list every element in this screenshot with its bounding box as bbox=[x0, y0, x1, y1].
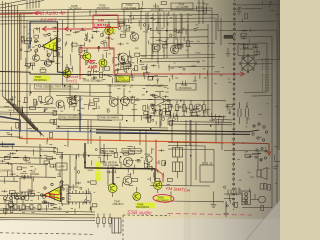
electrolytic capacitor C2 bbox=[173, 162, 183, 178]
capacitor CR2 bbox=[246, 102, 249, 124]
meter M1 bbox=[45, 96, 53, 104]
wire left bus v4 bbox=[11, 4, 13, 102]
component row rects bbox=[6, 205, 41, 210]
wire left bus v7 bbox=[20, 13, 22, 60]
wire topleft diag 2 bbox=[0, 1, 44, 9]
transistor TR27 highlight bbox=[63, 69, 72, 78]
IC U5 bbox=[20, 175, 32, 195]
transistor TR45 bbox=[123, 157, 132, 166]
wire tr vert 6 bbox=[180, 13, 182, 50]
wire left diag 1 bbox=[3, 96, 35, 129]
wire left bus v3 bbox=[8, 3, 10, 100]
red arrowhead orange end bbox=[267, 152, 271, 156]
TR28 symbol bbox=[83, 48, 91, 65]
red pen arrow wire to U1 bbox=[42, 28, 93, 30]
wire top stub v2 bbox=[29, 0, 31, 9]
wire top stub v4 bbox=[35, 0, 37, 8]
wire h95 bbox=[56, 96, 112, 97]
ground G3 bbox=[224, 210, 229, 217]
transistor TRd bbox=[56, 100, 64, 108]
component cluster: U1 surroundings bbox=[20, 26, 63, 72]
transistor TR47 highlight bbox=[108, 184, 117, 193]
TR47 symbol bbox=[108, 184, 117, 197]
wire left diag 2 bbox=[6, 98, 37, 131]
transistor TRf bbox=[45, 60, 52, 67]
meter M2 bottom-right bbox=[259, 196, 266, 203]
wire left strong v27 bbox=[26, 20, 28, 144]
red pen top-left segment bbox=[0, 13, 33, 16]
transistor TRg bbox=[152, 44, 160, 52]
resistor column bottom bbox=[97, 214, 111, 228]
dashed board corner bbox=[123, 215, 170, 240]
wire right loop 4 bbox=[252, 95, 272, 97]
wire h177 bbox=[0, 176, 56, 179]
bottom outline wire bbox=[171, 192, 224, 202]
wire h55 right bbox=[140, 54, 215, 57]
red pen drop to FM switch bbox=[156, 140, 163, 182]
IC U4 with pins bbox=[67, 191, 91, 205]
wires bottom-right bbox=[224, 194, 259, 210]
wire top rail 5 bbox=[0, 21, 280, 24]
wire h31 mid right bbox=[150, 29, 208, 32]
bottom chain dashed line bbox=[0, 233, 95, 235]
wire h123 bbox=[0, 122, 56, 123]
board edge chain line bbox=[234, 0, 235, 211]
transistor TRe bbox=[33, 55, 40, 62]
navy pen box around U1 bbox=[30, 22, 66, 73]
component cluster: limiter circuit bbox=[65, 28, 111, 52]
TR48 symbol bbox=[154, 181, 162, 193]
wire h112 bbox=[0, 112, 56, 113]
wire h62 right bbox=[140, 60, 200, 63]
transistor TR31 bbox=[118, 53, 128, 63]
wire switch bundle b bbox=[96, 133, 250, 134]
vertical label smudges right bbox=[263, 58, 269, 92]
wire h38 mid right bbox=[150, 36, 208, 39]
wire topleft diag 1 bbox=[0, 0, 26, 5]
wire left bus v2 bbox=[5, 2, 7, 98]
transistor TRa bbox=[109, 98, 118, 107]
wire tr vert 1 bbox=[145, 13, 147, 58]
junction dot bbox=[84, 162, 86, 164]
wire right drop B bbox=[208, 24, 224, 117]
component row bottom-left rails bbox=[0, 196, 62, 210]
box TF552 bbox=[200, 162, 214, 182]
label box TR38 bbox=[98, 115, 123, 120]
transistor TRh bbox=[170, 45, 178, 53]
rotary switch S1 bbox=[250, 123, 268, 141]
label box TR36 row bbox=[35, 84, 79, 89]
page crease line 2 bbox=[0, 219, 95, 222]
component cluster: left band fill bbox=[2, 118, 56, 147]
wire right v196 bbox=[195, 122, 197, 180]
transistor TR29 highlight bbox=[99, 59, 108, 68]
TR49 symbol bbox=[133, 187, 141, 200]
red pen left vertical bbox=[19, 15, 21, 139]
label box TR31b bbox=[115, 76, 130, 82]
wire h147 bbox=[0, 146, 56, 149]
bottom blank paper strip bbox=[0, 219, 280, 240]
TR27 symbol bbox=[63, 64, 71, 82]
top-right photo shadow bbox=[100, 0, 280, 200]
transistor TRi bbox=[146, 156, 152, 170]
U2 pins bbox=[40, 183, 64, 205]
wire left diag 4 bbox=[12, 102, 41, 134]
wire h67 right bbox=[168, 65, 215, 68]
transistor TR44 bbox=[194, 104, 202, 112]
transistor TR30 highlight bbox=[105, 26, 114, 35]
label box TR41 bbox=[101, 148, 117, 153]
metal-can IC U3 bbox=[239, 54, 257, 73]
wire mid h76 bbox=[113, 76, 168, 77]
wire tr vert 4 bbox=[166, 13, 168, 58]
smudge highlight bbox=[112, 26, 116, 33]
orange pen long horizontal bbox=[20, 139, 233, 143]
wire corner r1 bbox=[168, 146, 205, 165]
component cluster: bottom mid fill bbox=[101, 152, 131, 178]
label plate R88 bbox=[224, 35, 233, 38]
wire left diag 3 bbox=[9, 100, 39, 132]
red oval around TR50 bbox=[153, 194, 174, 203]
wire right loop 2 bbox=[228, 43, 267, 92]
wire right loop 3 bbox=[244, 91, 267, 94]
component cluster: right col upper bbox=[238, 1, 281, 23]
wire mid h72 bbox=[0, 72, 113, 75]
wire verticals group bbox=[12, 10, 244, 190]
wire h91 bbox=[0, 91, 112, 93]
wire thick elbow to TR48 bbox=[85, 143, 155, 184]
capacitor bottom-right pair bbox=[228, 188, 239, 196]
red scribble in U2 bbox=[45, 193, 59, 197]
wire h137 bbox=[0, 136, 20, 139]
wire left bus v6 bbox=[17, 6, 19, 106]
wire tr vert 7 bbox=[187, 13, 189, 58]
component cluster: TR34 area bbox=[170, 28, 198, 48]
component cluster: top band stubs bbox=[139, 1, 209, 16]
micro text specks bbox=[3, 15, 279, 213]
box low level bbox=[238, 45, 257, 56]
wire h151 bbox=[0, 150, 56, 153]
component cluster: right caps rows bbox=[141, 103, 233, 125]
navy thick stub left bbox=[0, 143, 14, 145]
component cluster: right col mid2 bbox=[245, 152, 280, 190]
component cluster: mid band centre bbox=[59, 95, 171, 115]
label box TR40 bbox=[176, 84, 196, 91]
component cluster: mid band left bbox=[4, 96, 56, 116]
label box TR32 bbox=[122, 4, 139, 10]
connector strip right of U2 bbox=[62, 185, 72, 204]
wire right loop 1 bbox=[240, 37, 272, 189]
component cluster: bottom dense band bbox=[4, 193, 97, 215]
speaker SP1 bbox=[257, 168, 267, 180]
wire top rail 2 bbox=[0, 11, 211, 14]
wire h58 right bbox=[140, 57, 215, 60]
component cluster: top right small bbox=[241, 28, 260, 54]
label TR50 highlight bbox=[156, 196, 173, 201]
wire top rail 3 bbox=[0, 15, 277, 206]
op-amp U2 highlight bbox=[44, 187, 61, 202]
component cluster: left control rows bbox=[0, 144, 57, 183]
transistor TR48 highlight bbox=[153, 181, 162, 190]
transistor TR47b bbox=[123, 176, 132, 185]
wire h158 bbox=[0, 157, 56, 160]
wire bottom h211 bbox=[0, 211, 95, 213]
blue pen long wire bbox=[0, 130, 160, 133]
connector dots on edge bbox=[233, 3, 236, 205]
wire left bus v5 bbox=[14, 5, 16, 104]
wire right v191 bbox=[190, 120, 192, 186]
op-amp U1 body bbox=[42, 38, 57, 52]
wire resistor rail h99 bbox=[112, 99, 226, 101]
transistor TRb bbox=[121, 97, 130, 106]
wire top corner h9 bbox=[236, 8, 262, 10]
red arrowhead at U3 bbox=[241, 72, 245, 76]
component cluster: centre low section bbox=[95, 146, 170, 186]
wire top rail 1 bbox=[0, 8, 212, 11]
junction pads bbox=[16, 28, 211, 157]
component cluster: centre upper bbox=[118, 16, 168, 48]
red pen FM limiter box bbox=[93, 15, 118, 28]
wire h164 bbox=[0, 163, 48, 166]
component cluster: bottom band upper bbox=[1, 189, 53, 200]
label box TR34 bbox=[171, 3, 193, 10]
label box TR44 bbox=[122, 148, 141, 153]
wire top corner h5 bbox=[236, 4, 280, 7]
wire h114 long bbox=[0, 114, 226, 117]
wire right h151 bbox=[224, 150, 268, 153]
label box TR36b bbox=[59, 115, 81, 120]
resistor w ground right-bottom bbox=[211, 192, 217, 208]
U1 pins bbox=[35, 33, 61, 56]
printed box near U1 bbox=[62, 20, 64, 86]
component cluster: bottom right details bbox=[224, 186, 264, 211]
page crease line 1 bbox=[0, 216, 95, 219]
label TR37 highlight bbox=[33, 76, 50, 82]
wire h126 bbox=[56, 126, 168, 128]
resistor highlight bar A bbox=[95, 162, 100, 171]
electrolytic capacitor C1 bbox=[173, 141, 183, 162]
wire tr vert 2 bbox=[152, 13, 154, 54]
op-amp U6 bbox=[150, 92, 172, 107]
resistor highlight bar B bbox=[95, 171, 100, 181]
connector J1 bottom-right bbox=[242, 191, 251, 205]
wire left diag 5 bbox=[15, 104, 43, 135]
component cluster: mic amp circuit bbox=[66, 50, 135, 84]
wire corner r3 bbox=[168, 142, 224, 145]
transistor TR49 highlight bbox=[133, 192, 141, 200]
wire h181 bbox=[0, 180, 18, 182]
wire left bus v1 bbox=[2, 1, 4, 96]
navy thick wire left bbox=[0, 117, 20, 132]
wire right v186 bbox=[185, 120, 187, 186]
wire right h60 bbox=[255, 59, 280, 62]
wire h107 bbox=[0, 107, 56, 108]
resistor row R group bbox=[168, 101, 206, 117]
wire tr vert 3 bbox=[159, 13, 161, 50]
capacitor CR1 bbox=[238, 102, 241, 124]
wire switch bundle a bbox=[96, 130, 250, 132]
op-amp U2 body bbox=[44, 187, 61, 202]
wire top rail 4 bbox=[0, 18, 215, 21]
wire top stub v1 bbox=[26, 0, 28, 9]
component cluster: lamp section fill bbox=[59, 153, 96, 195]
wire h119 bbox=[56, 119, 112, 120]
wire right edge v bbox=[279, 21, 281, 60]
wire h128 bbox=[56, 128, 168, 130]
wire h44 mid right bbox=[150, 42, 215, 45]
red arrowheads bbox=[43, 27, 69, 31]
wire right drop A bbox=[212, 8, 232, 120]
wire label rail h83 bbox=[0, 84, 168, 86]
wire right v258 bbox=[257, 151, 259, 170]
component cluster: upper mid fill bbox=[115, 53, 147, 80]
label TR49 highlight bbox=[135, 203, 155, 209]
wire right h60b bbox=[255, 63, 272, 65]
wire h185 centre-right bbox=[150, 185, 210, 188]
TR30 symbol bbox=[105, 21, 113, 40]
op-amp U1 highlight bbox=[42, 38, 57, 52]
navy pen box left side bbox=[29, 22, 31, 48]
ground G2 bbox=[226, 48, 231, 57]
wire tr vert 5 bbox=[173, 13, 175, 54]
wire top stub v5 bbox=[38, 0, 40, 8]
transistor TR28 highlight bbox=[83, 52, 92, 61]
wire bottom h214 bbox=[0, 214, 95, 215]
relay box K1 bbox=[112, 218, 121, 233]
red pen limiter to mic amp bbox=[80, 28, 243, 80]
wire corner r2 bbox=[168, 149, 214, 165]
twin ladder wires bbox=[198, 0, 205, 24]
component cluster: centre right low bbox=[144, 149, 172, 185]
component cluster: right mid components bbox=[145, 64, 220, 86]
wire h155 bbox=[56, 155, 112, 156]
wire top stub v3 bbox=[32, 0, 34, 8]
switch S2 contacts bbox=[252, 147, 267, 161]
note FM Audio arrow bbox=[34, 12, 41, 15]
label TR31c highlight bbox=[116, 76, 130, 82]
wire h121 right bbox=[168, 121, 232, 124]
component row circles bbox=[4, 197, 25, 204]
wire left bus v8 bbox=[23, 13, 25, 40]
wire right box bottom bbox=[242, 188, 272, 208]
navy pen vertical mid bbox=[79, 96, 81, 131]
transistor TRc bbox=[68, 97, 76, 105]
transistor TR33 bbox=[130, 33, 138, 41]
wire h124 right bbox=[168, 123, 232, 126]
pink dashed wire bbox=[168, 213, 252, 215]
component cluster: mid right resistors bbox=[169, 104, 208, 121]
component cluster: mid centre dense bbox=[115, 51, 150, 75]
LAMP box bbox=[56, 163, 67, 170]
TR29 symbol bbox=[99, 54, 107, 72]
wire left diag 6 bbox=[18, 106, 45, 137]
ground G1 bbox=[237, 7, 242, 15]
red pen right segment bbox=[232, 143, 269, 153]
component cluster: under U6 hatch bbox=[143, 106, 174, 126]
